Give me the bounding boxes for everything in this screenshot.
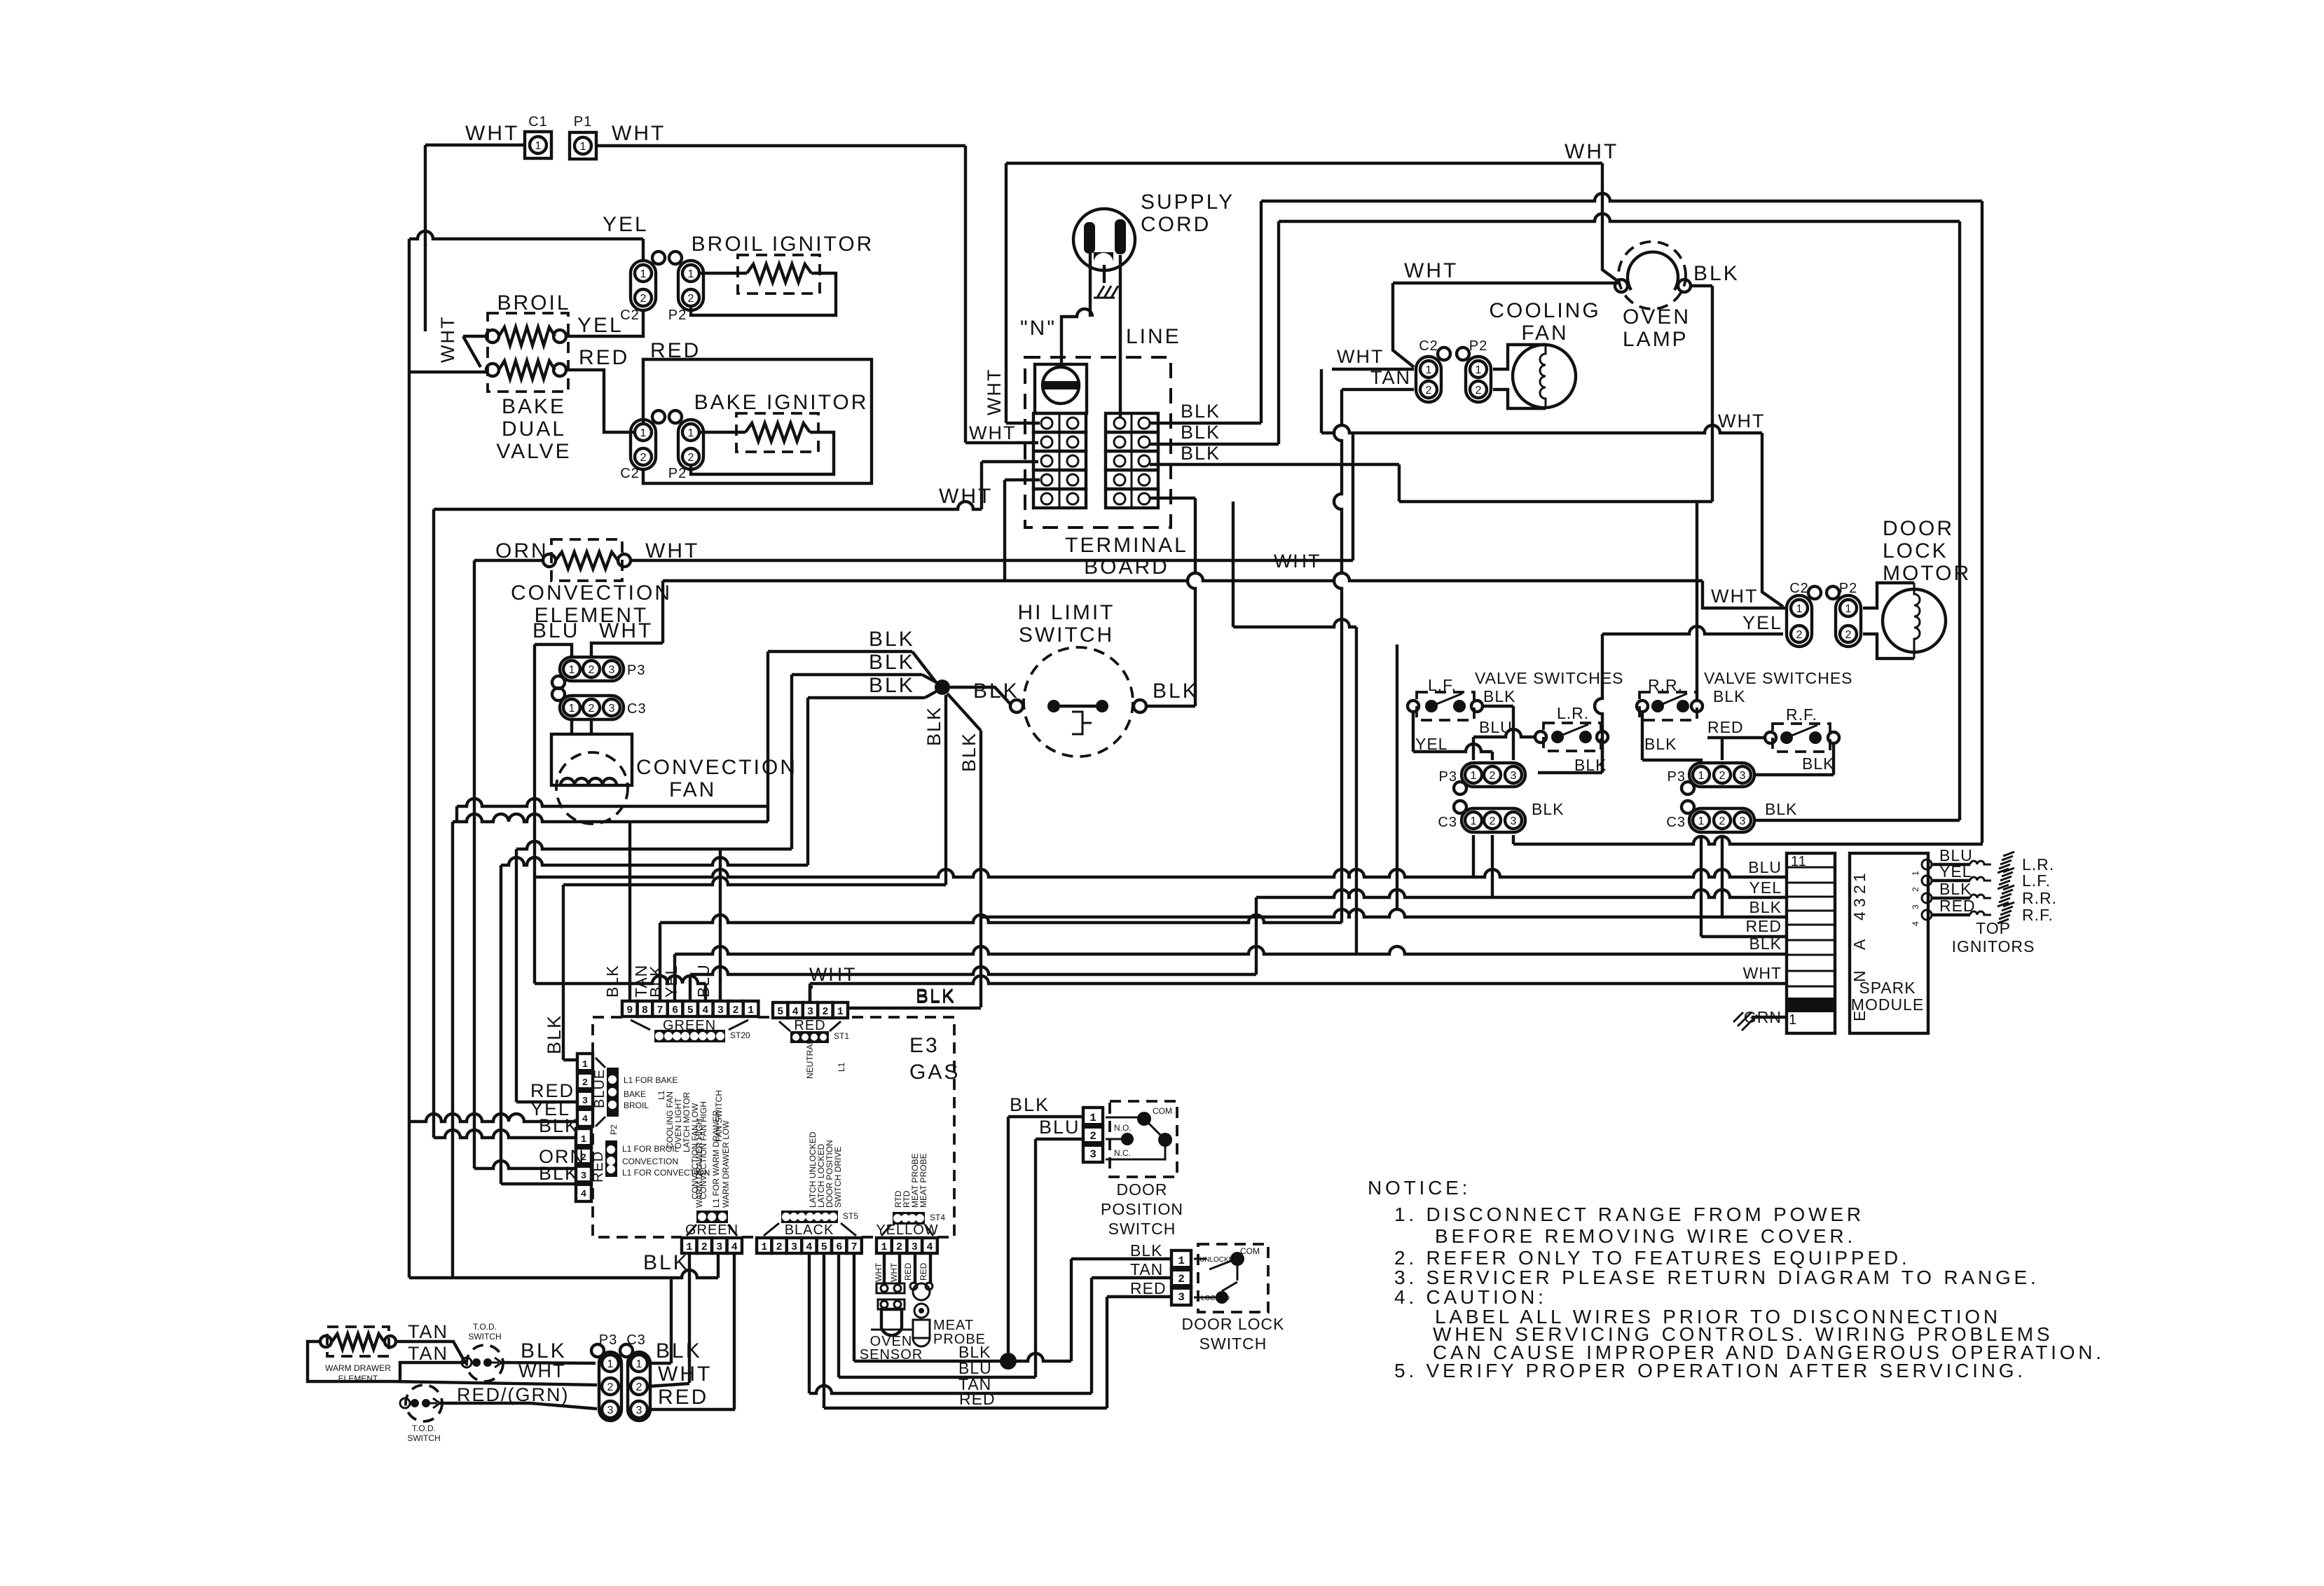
svg-text:WHT: WHT bbox=[889, 1262, 899, 1282]
wire BLACK cell7 BLK bbox=[854, 1253, 1170, 1361]
wire P1 to terminal board row2 bbox=[965, 146, 1038, 443]
svg-text:RED: RED bbox=[1939, 897, 1976, 915]
wire C3L pin3 BLK bbox=[1513, 835, 1983, 844]
svg-text:WHT: WHT bbox=[1274, 551, 1321, 572]
supply cord plug bbox=[1073, 209, 1135, 270]
label TAN 1 bbox=[408, 1321, 448, 1342]
svg-text:BLK: BLK bbox=[1483, 687, 1515, 705]
svg-text:BLK: BLK bbox=[958, 732, 979, 772]
LR switch bbox=[1535, 723, 1608, 751]
connector P2 broil bbox=[668, 251, 703, 323]
svg-text:VALVE: VALVE bbox=[496, 440, 571, 463]
label BLK LR bbox=[1574, 756, 1607, 774]
notice line 3 bbox=[1394, 1247, 1910, 1269]
ground symbol spark bbox=[1733, 1012, 1757, 1030]
RED 5-pin connector bbox=[773, 1002, 848, 1018]
svg-text:1: 1 bbox=[1089, 1112, 1096, 1124]
wire N fuse link bbox=[1061, 254, 1092, 367]
svg-text:1: 1 bbox=[881, 1241, 887, 1253]
svg-text:1: 1 bbox=[1845, 603, 1852, 615]
wire WHT into C2lock bbox=[0, 0, 1, 1]
label YEL door lock bbox=[1742, 612, 1782, 633]
wire C3wd RED bbox=[649, 1386, 735, 1409]
label NOTICE bbox=[1368, 1177, 1471, 1199]
svg-text:2: 2 bbox=[1911, 887, 1920, 892]
meat probe jack bbox=[910, 1283, 933, 1300]
wire plug center to ground bbox=[1103, 265, 1106, 283]
svg-text:SENSOR: SENSOR bbox=[860, 1347, 923, 1363]
wire BLU conv bbox=[535, 644, 713, 1001]
wire neutral bus y829 bbox=[663, 573, 1785, 608]
broil-bake valve dashed box bbox=[488, 313, 568, 392]
connector P3 valve right bbox=[1668, 763, 1754, 794]
wire WHT into C2cool bbox=[1332, 346, 1414, 369]
wire RR feed bbox=[1696, 502, 1698, 700]
convection element dashed box bbox=[551, 539, 622, 581]
svg-text:P3: P3 bbox=[1439, 769, 1457, 785]
svg-text:BLACK: BLACK bbox=[785, 1222, 834, 1238]
svg-text:DOOR: DOOR bbox=[1883, 517, 1954, 540]
convection fan coil bbox=[561, 778, 617, 785]
svg-text:6: 6 bbox=[836, 1241, 842, 1253]
svg-text:NEUTRAL: NEUTRAL bbox=[805, 1040, 815, 1079]
svg-text:4: 4 bbox=[806, 1241, 812, 1253]
wire element loop bbox=[308, 1342, 392, 1381]
svg-text:C2: C2 bbox=[620, 466, 640, 481]
svg-text:YEL: YEL bbox=[577, 314, 624, 337]
wire TAN1 bbox=[396, 1342, 465, 1363]
wire rowD L1 feed bbox=[563, 877, 946, 1060]
label OVEN SENSOR bbox=[860, 1334, 923, 1363]
oven sensor bulb bbox=[871, 1309, 912, 1335]
label BLK RR right bbox=[1713, 687, 1745, 705]
svg-text:YEL: YEL bbox=[1749, 878, 1782, 897]
door lock motor bbox=[1883, 583, 1946, 658]
connector P3 convection bbox=[552, 657, 645, 689]
svg-text:SWITCH: SWITCH bbox=[468, 1332, 501, 1342]
svg-text:1: 1 bbox=[761, 1241, 767, 1253]
svg-text:1: 1 bbox=[688, 268, 694, 280]
notice line 7 bbox=[1433, 1323, 2053, 1345]
svg-text:NOTICE:: NOTICE: bbox=[1368, 1177, 1471, 1199]
svg-text:1: 1 bbox=[837, 1006, 844, 1018]
svg-text:RED: RED bbox=[959, 1390, 996, 1408]
svg-text:BLK: BLK bbox=[1765, 800, 1797, 818]
svg-text:BLK: BLK bbox=[539, 1163, 579, 1184]
connector C3 valve right bbox=[1666, 801, 1754, 832]
svg-text:1: 1 bbox=[640, 268, 647, 280]
wire RED RF bbox=[1707, 738, 1766, 760]
svg-text:4: 4 bbox=[1911, 921, 1920, 926]
resistor broil coil bbox=[486, 327, 566, 345]
BLUE 4-pin connector bbox=[576, 1054, 594, 1126]
svg-text:IGNITORS: IGNITORS bbox=[1952, 937, 2035, 956]
resistor convection element bbox=[543, 552, 631, 569]
label N bbox=[1020, 317, 1057, 340]
svg-text:COM: COM bbox=[1240, 1246, 1260, 1256]
label RED valve bbox=[1707, 718, 1744, 736]
notice line 1 bbox=[1394, 1204, 1864, 1225]
wire GREEN9 cell9 BLK up bbox=[628, 822, 631, 1001]
svg-text:TAN: TAN bbox=[408, 1343, 448, 1364]
svg-text:TAN: TAN bbox=[1370, 367, 1411, 388]
connector P3 valve left bbox=[1439, 763, 1525, 794]
svg-text:11: 11 bbox=[1791, 854, 1807, 869]
svg-text:3: 3 bbox=[807, 1006, 813, 1018]
label GREEN bottom bbox=[685, 1222, 738, 1238]
notice line 8 bbox=[1433, 1342, 2105, 1363]
svg-text:BLK: BLK bbox=[1130, 1241, 1162, 1260]
wire B down to lamp bbox=[1602, 163, 1618, 282]
svg-text:1: 1 bbox=[582, 1059, 588, 1070]
RED header flare bbox=[779, 1021, 849, 1043]
svg-text:RED: RED bbox=[530, 1080, 575, 1101]
svg-text:C3: C3 bbox=[1438, 815, 1457, 830]
svg-text:L1 FOR WARM DRAWER: L1 FOR WARM DRAWER bbox=[711, 1110, 721, 1208]
svg-text:BLK: BLK bbox=[1749, 898, 1782, 916]
svg-text:BLK: BLK bbox=[923, 706, 944, 746]
resistor broil ignitor bbox=[747, 264, 811, 282]
label BLU valve bbox=[1479, 718, 1513, 736]
label VALVE SWITCHES right bbox=[1704, 669, 1853, 687]
label RED upper bbox=[650, 339, 701, 362]
svg-text:3: 3 bbox=[1511, 770, 1517, 782]
svg-text:3: 3 bbox=[582, 1096, 588, 1107]
svg-text:P1: P1 bbox=[574, 114, 592, 130]
svg-text:BLU: BLU bbox=[532, 619, 579, 642]
wire C3L pin1 to BLU row bbox=[1472, 835, 1475, 877]
svg-text:P3: P3 bbox=[627, 663, 645, 678]
wire C3R pin1 to RED row bbox=[1701, 835, 1787, 937]
svg-text:BLK: BLK bbox=[1644, 735, 1677, 753]
svg-text:BLK: BLK bbox=[643, 1251, 689, 1274]
BLACK rotated labels bbox=[808, 1131, 843, 1208]
wire RED5 cell3 WHT up bbox=[810, 987, 813, 1002]
wire BLK2 long row bbox=[544, 935, 1787, 1060]
svg-text:2: 2 bbox=[1089, 1130, 1096, 1143]
svg-text:BLK: BLK bbox=[544, 1014, 565, 1054]
wire door position BLK drop bbox=[1008, 1094, 1083, 1353]
wire BLK row1 bbox=[1150, 201, 1261, 423]
svg-text:3: 3 bbox=[717, 1005, 724, 1016]
GREEN4 rotated labels bbox=[694, 1110, 731, 1208]
wire LR right to P3L bbox=[1538, 743, 1602, 773]
svg-text:MODULE: MODULE bbox=[1851, 995, 1924, 1014]
label LINE bbox=[1126, 325, 1181, 348]
label BLK GREEN9 cell9 bbox=[603, 965, 621, 998]
wire GREEN cell3 up bbox=[719, 849, 722, 1001]
svg-text:YEL: YEL bbox=[603, 213, 649, 236]
wire row convection return bbox=[457, 799, 768, 822]
svg-text:BROIL IGNITOR: BROIL IGNITOR bbox=[692, 233, 874, 256]
svg-text:4: 4 bbox=[731, 1241, 738, 1253]
wire RED bake to C2 bake bbox=[566, 370, 633, 432]
svg-text:LINE: LINE bbox=[1126, 325, 1181, 348]
svg-text:L.R.: L.R. bbox=[1557, 704, 1589, 722]
svg-text:1: 1 bbox=[1698, 770, 1705, 782]
wire WHT long y618 bbox=[1321, 369, 1765, 433]
wire TAN into C2cool bbox=[1342, 367, 1414, 389]
svg-text:2: 2 bbox=[701, 1241, 708, 1253]
svg-text:BLK: BLK bbox=[1939, 880, 1972, 898]
label WHT RED5 bbox=[809, 964, 856, 985]
wire WHT bracket valves bbox=[409, 316, 486, 372]
svg-text:N.O.: N.O. bbox=[1114, 1123, 1132, 1133]
wire BLACK cell5 RED bbox=[824, 1253, 1170, 1408]
svg-text:WHT: WHT bbox=[1718, 411, 1765, 432]
svg-text:WHT: WHT bbox=[939, 485, 993, 508]
svg-text:FAN: FAN bbox=[1521, 322, 1568, 345]
wire C3R pin3 BLK bbox=[1754, 819, 1960, 822]
wire RR left to P3R pin1 bbox=[1642, 712, 1701, 764]
svg-text:5: 5 bbox=[821, 1241, 827, 1253]
GREEN 9-pin connector bbox=[622, 1001, 758, 1016]
svg-text:1: 1 bbox=[569, 664, 575, 676]
wire y618 down to door lock C2 bbox=[1762, 433, 1783, 607]
svg-text:C2: C2 bbox=[620, 308, 640, 323]
label GREEN top bbox=[663, 1018, 716, 1033]
label TOP IGNITORS bbox=[1952, 919, 2035, 956]
svg-text:2: 2 bbox=[581, 1152, 586, 1164]
svg-text:3: 3 bbox=[607, 1405, 614, 1416]
svg-text:ST4: ST4 bbox=[930, 1213, 945, 1222]
YELLOW 4-pin connector bbox=[876, 1238, 937, 1253]
svg-text:1: 1 bbox=[1476, 364, 1482, 376]
svg-text:"N": "N" bbox=[1020, 317, 1057, 340]
svg-text:3: 3 bbox=[581, 1171, 586, 1182]
svg-text:A: A bbox=[1850, 939, 1869, 950]
svg-text:BLK: BLK bbox=[1802, 754, 1834, 773]
hi limit contacts bbox=[1010, 700, 1146, 734]
svg-text:BLU: BLU bbox=[1748, 858, 1782, 876]
label BLACK bottom bbox=[785, 1222, 834, 1238]
svg-text:WHT: WHT bbox=[437, 316, 458, 363]
svg-text:R.F.: R.F. bbox=[1786, 705, 1817, 724]
E3 dashed box bbox=[593, 1017, 954, 1237]
label E3 GAS bbox=[909, 1034, 960, 1084]
svg-text:GREEN: GREEN bbox=[685, 1222, 738, 1238]
wire WHT long row bbox=[810, 964, 1787, 1001]
svg-text:WHT: WHT bbox=[1337, 346, 1384, 367]
terminal board dashed box bbox=[1025, 357, 1171, 527]
svg-text:BLK: BLK bbox=[1532, 800, 1564, 818]
label TERMINAL BOARD bbox=[1065, 534, 1188, 579]
label WHT mid bbox=[939, 485, 993, 508]
convection fan dashed circle bbox=[556, 752, 628, 824]
terminal board left block bbox=[1033, 413, 1086, 508]
svg-text:BLK: BLK bbox=[916, 985, 956, 1006]
spark module box bbox=[1850, 853, 1928, 1033]
svg-text:4: 4 bbox=[926, 1241, 933, 1253]
svg-text:3: 3 bbox=[1511, 815, 1517, 827]
svg-text:ST20: ST20 bbox=[730, 1030, 750, 1040]
oven sensor plug bbox=[876, 1283, 905, 1309]
label YEL valve bbox=[1415, 735, 1448, 753]
meat probe ring bbox=[914, 1304, 928, 1318]
svg-text:2: 2 bbox=[1719, 770, 1726, 782]
door position dashed box bbox=[1110, 1101, 1177, 1177]
wire broil ignitor return bbox=[691, 273, 836, 315]
label WHT door lock feed bbox=[1711, 586, 1758, 607]
svg-text:3: 3 bbox=[1911, 904, 1920, 909]
svg-text:1: 1 bbox=[688, 427, 694, 439]
wire BLK3 into junction bbox=[808, 674, 939, 698]
door position contacts bbox=[1106, 1106, 1172, 1159]
svg-text:BLK: BLK bbox=[1693, 262, 1740, 285]
svg-text:P2: P2 bbox=[609, 1124, 619, 1135]
label RF bbox=[1786, 705, 1817, 724]
label BLK C3R bbox=[1765, 800, 1797, 818]
wire BLU LR bbox=[1473, 729, 1536, 760]
svg-text:P3: P3 bbox=[599, 1332, 617, 1348]
svg-text:SPARK: SPARK bbox=[1859, 979, 1916, 997]
svg-text:BLK: BLK bbox=[1010, 1094, 1050, 1115]
svg-text:RED: RED bbox=[919, 1262, 928, 1281]
svg-text:3: 3 bbox=[1740, 815, 1746, 827]
svg-text:RED: RED bbox=[591, 1151, 606, 1182]
label YEL broil bbox=[577, 314, 624, 337]
wire broil coil to C2 pin2 bbox=[566, 310, 643, 336]
label VALVE SWITCHES left bbox=[1475, 669, 1624, 687]
svg-text:4. CAUTION:: 4. CAUTION: bbox=[1394, 1286, 1547, 1308]
svg-text:PROBE: PROBE bbox=[933, 1332, 986, 1347]
svg-text:SWITCH DRIVE: SWITCH DRIVE bbox=[833, 1147, 843, 1208]
svg-text:P2: P2 bbox=[668, 466, 687, 481]
connector C3 valve left bbox=[1438, 801, 1525, 832]
svg-text:1: 1 bbox=[1796, 603, 1803, 615]
svg-text:7: 7 bbox=[656, 1005, 663, 1016]
oven lamp dashed circle bbox=[1618, 242, 1686, 309]
label GRN bbox=[1744, 1008, 1782, 1026]
label TOD 1 bbox=[468, 1322, 501, 1342]
svg-text:3: 3 bbox=[1740, 770, 1746, 782]
labels BLK TAN RED door lock bbox=[1130, 1241, 1167, 1297]
wire left vertical from C1 bbox=[424, 145, 427, 331]
svg-text:4: 4 bbox=[582, 1114, 588, 1125]
svg-text:9: 9 bbox=[626, 1005, 633, 1016]
svg-text:P2: P2 bbox=[1839, 581, 1857, 596]
svg-text:3: 3 bbox=[912, 1241, 918, 1253]
svg-text:3: 3 bbox=[1850, 897, 1869, 907]
connector P2 cooling bbox=[1457, 338, 1491, 402]
wire WHT conv bbox=[591, 581, 663, 658]
label COOLING FAN bbox=[1489, 299, 1600, 345]
svg-text:2: 2 bbox=[607, 1381, 614, 1393]
broil ignitor dashed box bbox=[738, 255, 820, 294]
meat probe body bbox=[913, 1320, 930, 1346]
YELLOW header bbox=[881, 1212, 945, 1236]
wire YEL long row bbox=[662, 878, 1787, 1001]
svg-text:BLK: BLK bbox=[869, 628, 915, 651]
fuse body bbox=[1035, 364, 1087, 413]
wire BLACK cell6 BLU bbox=[839, 1139, 1036, 1377]
wire RF right to P3R pin3 bbox=[1754, 743, 1834, 775]
svg-text:BLK: BLK bbox=[869, 651, 915, 674]
label WHT row2 bbox=[969, 422, 1016, 443]
svg-text:RED: RED bbox=[1707, 718, 1744, 736]
label BLK C3L bbox=[1532, 800, 1564, 818]
wire TAN2 bbox=[400, 1363, 465, 1381]
svg-text:WHT: WHT bbox=[1743, 964, 1782, 982]
svg-text:1: 1 bbox=[1471, 815, 1477, 827]
RR switch bbox=[1637, 692, 1703, 720]
wire BLK row2 bbox=[1150, 221, 1279, 444]
svg-text:MEAT: MEAT bbox=[933, 1318, 974, 1333]
door lock dashed box bbox=[1198, 1244, 1268, 1312]
svg-text:BAKE: BAKE bbox=[624, 1089, 646, 1099]
wire GREEN cell1 down bbox=[688, 1253, 691, 1383]
label YELLOW bottom bbox=[876, 1222, 938, 1238]
svg-text:BLK: BLK bbox=[603, 965, 621, 998]
hi limit dashed circle bbox=[1024, 647, 1133, 757]
svg-text:3: 3 bbox=[1178, 1291, 1185, 1304]
svg-text:DOOR LOCK: DOOR LOCK bbox=[1181, 1315, 1284, 1333]
wire GREEN cell6 up bbox=[647, 954, 675, 1001]
svg-text:SUPPLY: SUPPLY bbox=[1141, 191, 1235, 214]
svg-text:C2: C2 bbox=[1789, 581, 1809, 596]
wire YEL door lock bbox=[1595, 626, 1783, 773]
wire rowA bbox=[453, 651, 768, 1278]
svg-text:1: 1 bbox=[1789, 1012, 1797, 1028]
svg-text:2: 2 bbox=[1796, 629, 1803, 641]
label ORN bbox=[495, 539, 549, 563]
GREEN4 header bbox=[687, 1211, 737, 1236]
svg-text:POSITION: POSITION bbox=[1101, 1200, 1183, 1218]
svg-text:3: 3 bbox=[609, 703, 615, 715]
TOD switch 1 bbox=[462, 1345, 503, 1381]
label BLU bbox=[532, 619, 579, 642]
label DOOR LOCK MOTOR bbox=[1883, 517, 1971, 585]
wire YEL branch to BLUE cell4 bbox=[409, 1098, 576, 1122]
svg-text:L.F.: L.F. bbox=[2022, 871, 2051, 890]
svg-text:LAMP: LAMP bbox=[1623, 328, 1689, 351]
label LR bbox=[1557, 704, 1589, 722]
label RR bbox=[1648, 676, 1683, 694]
svg-text:5. VERIFY PROPER OPERATION AF: 5. VERIFY PROPER OPERATION AFTER SERVICI… bbox=[1394, 1360, 2026, 1381]
svg-text:TAN: TAN bbox=[1130, 1260, 1163, 1278]
label BLK RF bbox=[1802, 754, 1834, 773]
RED5 rotated labels bbox=[805, 1040, 846, 1079]
label TOD 2 bbox=[407, 1423, 440, 1443]
svg-text:2: 2 bbox=[589, 703, 595, 715]
wire WHT lamp run bbox=[1393, 259, 1618, 283]
svg-text:6: 6 bbox=[672, 1005, 678, 1016]
svg-text:BLUE: BLUE bbox=[592, 1069, 607, 1108]
svg-text:2: 2 bbox=[582, 1077, 588, 1089]
svg-text:C2: C2 bbox=[1419, 338, 1438, 354]
door lock contacts bbox=[1194, 1246, 1260, 1304]
svg-text:2. REFER ONLY TO FEATURES EQU: 2. REFER ONLY TO FEATURES EQUIPPED. bbox=[1394, 1247, 1910, 1269]
label LF bbox=[1428, 676, 1457, 694]
svg-text:YEL: YEL bbox=[1742, 612, 1782, 633]
label BLK LF bbox=[1483, 687, 1515, 705]
resistor bake ignitor bbox=[745, 423, 810, 441]
connector P3 warm drawer bbox=[591, 1332, 621, 1421]
svg-text:WHT: WHT bbox=[1565, 140, 1618, 163]
wire BLK row3 bbox=[1150, 443, 1399, 502]
svg-text:1: 1 bbox=[1698, 815, 1705, 827]
label WHT conv right bbox=[645, 539, 699, 563]
svg-text:WHT: WHT bbox=[1404, 259, 1458, 282]
label WHT wire B bbox=[1565, 140, 1618, 163]
svg-text:TERMINAL: TERMINAL bbox=[1065, 534, 1188, 557]
wire BLACK cell4 TAN bbox=[809, 1253, 1170, 1393]
svg-text:P2: P2 bbox=[1469, 338, 1487, 354]
svg-text:C3: C3 bbox=[626, 1332, 646, 1348]
wire frame right of E3 bbox=[1233, 502, 1356, 954]
label BLK RED5 bbox=[916, 985, 956, 1006]
wire rowC bbox=[501, 698, 808, 1184]
